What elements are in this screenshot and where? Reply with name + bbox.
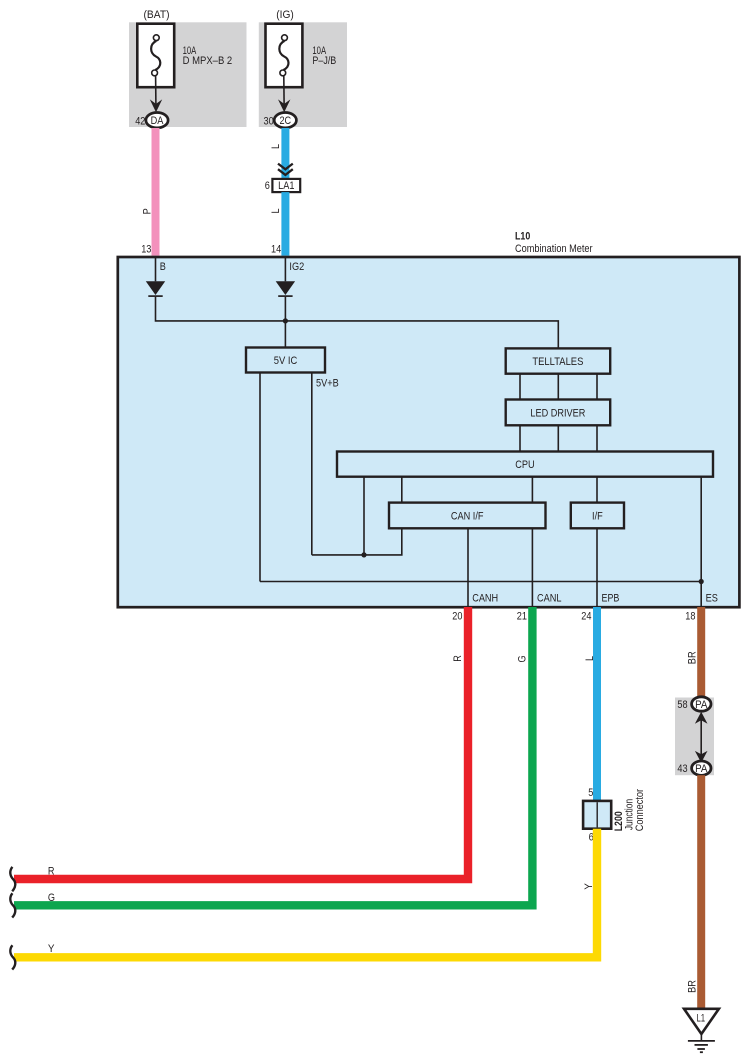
wire CAN I/F to CANH pin [467,528,469,606]
fuse block (IG) gray background [259,22,347,127]
svg-text:Combination Meter: Combination Meter [515,243,593,255]
svg-text:CANL: CANL [537,592,562,604]
svg-text:PA: PA [695,763,708,775]
wire CPU to CAN I/F right [531,477,533,503]
wire I/F to EPB pin [596,528,598,606]
connector DA pin 42 [146,113,168,128]
svg-text:43: 43 [677,763,687,775]
svg-text:PA: PA [695,699,708,711]
junction dot 5V+B CPU [361,552,366,557]
break squiggle wire G [10,893,15,917]
node IG2 pin 14 internal lead [284,258,286,281]
wire L (blue) from LA1 to combination meter pin 14 [281,192,289,256]
diode D2 [276,281,295,296]
svg-text:EPB: EPB [602,592,620,604]
svg-text:TELLTALES: TELLTALES [532,356,583,368]
svg-text:CAN I/F: CAN I/F [451,510,484,522]
wire BR (brown) ES upper [697,607,705,698]
wire CPU to CAN I/F left [401,477,403,503]
wire L (blue) EPB [593,607,601,801]
connector LA1 pin 6 [272,179,300,192]
svg-text:BR: BR [687,651,699,664]
svg-text:5V+B: 5V+B [316,378,339,390]
svg-text:L: L [270,144,282,149]
wire CPU to 5V+B junction [363,477,365,555]
break squiggle wire R [10,867,15,891]
svg-text:58: 58 [677,699,687,711]
node B pin 13 internal lead [155,258,157,281]
svg-text:30: 30 [264,115,274,127]
svg-text:LA1: LA1 [278,180,294,192]
wire CPU to I/F [596,477,598,503]
fuse block (BAT) gray background [129,22,247,127]
wire 5V+B jog to CAN I/F [312,528,402,555]
svg-text:B: B [160,261,166,273]
svg-text:IG2: IG2 [289,261,304,273]
wire P (pink) from DA to combination meter pin 13 [152,128,160,256]
svg-text:18: 18 [685,611,695,623]
wire from fuse F1 to connector DA with arrowhead [150,76,162,113]
fuse F1 10A D MPX-B 2 [137,24,174,87]
svg-text:BR: BR [686,980,698,993]
svg-text:21: 21 [517,611,527,623]
break squiggle wire Y [10,945,15,969]
fuse F2 10A P-J/B [266,24,303,87]
block TELLTALES [506,348,611,373]
wire 5V IC left output [259,373,261,582]
svg-text:42: 42 [135,115,145,127]
svg-text:R: R [452,655,464,662]
wire CPU to ES pin [700,477,702,606]
svg-text:G: G [48,892,55,904]
wires TELLTALES to LED DRIVER [520,374,597,400]
wire BR (brown) ES lower [697,775,705,1009]
wire L (blue) from 2C to LA1 [281,128,289,179]
junction dot ES [699,579,704,584]
svg-text:2C: 2C [279,115,291,127]
wire from fuse F2 to connector 2C with arrowhead [278,76,290,113]
svg-text:Connector: Connector [634,789,646,832]
chevron marks on wire L [278,164,293,175]
svg-text:ES: ES [706,592,718,604]
wire from diode D2 to 5V IC [284,297,286,348]
connector PA pin 43 [692,761,711,775]
block CAN I/F [389,503,546,529]
svg-text:6: 6 [265,180,270,192]
svg-text:L: L [584,656,596,661]
connector PA pin 58 [692,697,711,711]
ground stem and bars [688,1034,715,1052]
svg-text:L10: L10 [515,231,530,243]
svg-text:P: P [142,208,154,214]
block 5V IC [246,348,325,373]
junction node dot [283,318,288,323]
gray background PA connectors [675,698,714,776]
svg-text:CANH: CANH [472,592,498,604]
combination meter L10 box [118,257,740,607]
svg-text:5: 5 [588,787,593,799]
wire G (green) CANL [14,607,532,905]
svg-text:24: 24 [581,611,591,623]
junction connector L200 [583,801,611,829]
arrow between PA connectors [695,712,708,763]
block I/F [571,503,624,529]
wires LED DRIVER to CPU [520,425,597,451]
svg-text:(BAT): (BAT) [144,9,170,21]
svg-text:Y: Y [48,943,55,955]
svg-text:I/F: I/F [592,510,603,522]
svg-text:LED DRIVER: LED DRIVER [530,408,585,420]
ground bus horizontal wire [260,581,701,583]
svg-text:CPU: CPU [515,459,534,471]
svg-text:14: 14 [271,244,281,256]
svg-text:13: 13 [141,244,151,256]
svg-text:DA: DA [151,115,164,127]
svg-text:P–J/B: P–J/B [312,55,336,67]
svg-text:Y: Y [583,883,595,890]
svg-text:5V IC: 5V IC [274,355,298,367]
block CPU [337,452,713,477]
svg-text:L: L [270,208,282,213]
svg-text:G: G [517,655,529,662]
wire CAN I/F to CANL pin [531,528,533,606]
connector 2C pin 30 [274,113,296,128]
wire 5V+B output [311,373,313,555]
svg-text:L1: L1 [696,1012,705,1024]
svg-text:20: 20 [452,611,462,623]
wire Y (yellow) from L200 [14,829,597,958]
diode D1 [146,281,165,296]
svg-text:R: R [48,865,55,877]
svg-text:(IG): (IG) [276,9,294,21]
svg-text:D MPX–B 2: D MPX–B 2 [183,55,233,67]
ground L1 [684,1009,719,1034]
wire from diode D1 to telltales branch [156,297,559,349]
wire R (red) CANH [14,607,468,879]
block LED DRIVER [506,400,611,426]
